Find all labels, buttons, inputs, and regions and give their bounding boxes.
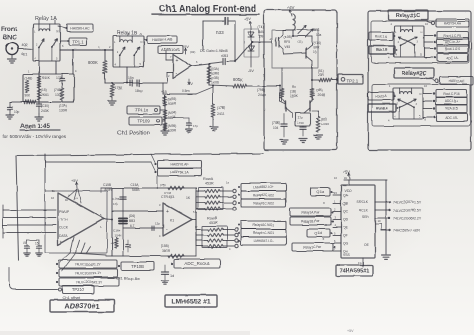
svg-text:74HA595#1: 74HA595#1: [340, 269, 370, 275]
svg-text:10a: 10a: [316, 33, 322, 37]
svg-text:for 500mV/div - 10V/div ranges: for 500mV/div - 10V/div ranges: [3, 134, 67, 139]
svg-text:N: N: [141, 40, 143, 44]
svg-text:243K: 243K: [41, 109, 50, 113]
svg-text:Rout.1.B.S: Rout.1.B.S: [445, 47, 461, 51]
svg-text:QF: QF: [343, 234, 348, 238]
svg-text:RowA: RowA: [203, 177, 214, 181]
svg-text:(79B): (79B): [257, 88, 265, 92]
svg-text:+1/5: +1/5: [110, 241, 116, 245]
svg-text:(14B): (14B): [25, 76, 33, 80]
svg-text:Relay 1A: Relay 1A: [35, 16, 57, 22]
svg-text:ADC.I.B-: ADC.I.B-: [445, 116, 457, 120]
svg-text:1K06: 1K06: [211, 81, 219, 85]
svg-text:RowB: RowB: [207, 216, 218, 220]
svg-text:C15B: C15B: [103, 183, 111, 187]
svg-text:74LVC1G04#1.2Y: 74LVC1G04#1.2Y: [75, 262, 102, 266]
svg-text:160K: 160K: [290, 94, 299, 98]
svg-text:QA: QA: [343, 194, 349, 198]
svg-text:QC: QC: [343, 210, 349, 214]
svg-text:Q1a: Q1a: [317, 190, 325, 194]
svg-text:(13A): (13A): [59, 104, 67, 108]
svg-text:QG: QG: [343, 242, 349, 246]
svg-text:(11): (11): [297, 40, 302, 44]
svg-text:74LVC2G06#2.2Y: 74LVC2G06#2.2Y: [393, 216, 422, 220]
svg-text:TP2.1: TP2.1: [347, 79, 359, 84]
svg-text:90K: 90K: [25, 94, 32, 98]
svg-text:Relay#1C.NO1: Relay#1C.NO1: [253, 223, 274, 227]
svg-text:Relay#2C: Relay#2C: [402, 71, 426, 77]
svg-text:244R: 244R: [258, 93, 267, 97]
svg-text:199: 199: [258, 35, 264, 39]
svg-text:HA5Y2.AH: HA5Y2.AH: [449, 79, 465, 83]
svg-text:545B: 545B: [132, 188, 139, 192]
svg-text:RCLK: RCLK: [359, 208, 369, 212]
svg-text:130R: 130R: [59, 109, 68, 113]
svg-text:SER: SER: [362, 215, 369, 219]
svg-text:C15A: C15A: [131, 183, 140, 187]
svg-text:+5V: +5V: [71, 179, 78, 183]
svg-text:n053: n053: [221, 54, 228, 58]
svg-text:16: 16: [51, 196, 55, 200]
svg-text:Ch1 Analog Front-end: Ch1 Analog Front-end: [159, 4, 256, 15]
svg-text:Run.1.B: Run.1.B: [376, 48, 388, 52]
svg-text:ADC_RxOut: ADC_RxOut: [185, 261, 210, 266]
svg-text:Rx: Rx: [292, 85, 296, 89]
svg-text:10: 10: [377, 219, 381, 223]
svg-text:180p: 180p: [135, 89, 143, 93]
svg-text:HA05KH.AC: HA05KH.AC: [70, 26, 90, 30]
svg-text:V45: V45: [284, 45, 290, 49]
svg-text:+5V: +5V: [287, 5, 295, 10]
svg-text:+: +: [166, 209, 169, 215]
svg-text:C164: C164: [113, 229, 121, 233]
svg-text:1/R20: 1/R20: [321, 122, 329, 126]
svg-text:+15: +15: [161, 90, 167, 94]
svg-text:LMH6547.I.O-: LMH6547.I.O-: [254, 239, 274, 243]
svg-text:QE: QE: [343, 226, 349, 230]
svg-text:QD: QD: [343, 218, 349, 222]
svg-text:(03B): (03B): [211, 76, 219, 80]
svg-text:74LVC2G07#1.5Y: 74LVC2G07#1.5Y: [393, 200, 422, 204]
svg-text:Rout3.A: Rout3.A: [375, 94, 387, 98]
svg-text:154N: 154N: [114, 234, 121, 238]
svg-text:R2A.B.5: R2A.B.5: [446, 107, 458, 111]
svg-text:DC Gain=1.98x/8: DC Gain=1.98x/8: [200, 49, 228, 53]
svg-text:74LVC2G06#2.3Y: 74LVC2G06#2.3Y: [76, 280, 103, 284]
svg-text:74LVC2G07#2.5Y: 74LVC2G07#2.5Y: [393, 208, 422, 212]
svg-text:15n: 15n: [128, 76, 134, 80]
svg-text:Relay1B.Pwr: Relay1B.Pwr: [301, 219, 320, 223]
svg-text:175K: 175K: [114, 86, 123, 90]
svg-text:+: +: [176, 58, 179, 64]
svg-text:+: +: [60, 240, 63, 245]
svg-text:74HC595#2.SER: 74HC595#2.SER: [393, 228, 420, 232]
svg-text:CTR 453: CTR 453: [161, 195, 175, 199]
svg-text:VSS: VSS: [343, 253, 351, 257]
svg-text:Ch1 offset: Ch1 offset: [62, 295, 81, 300]
svg-text:QB: QB: [343, 202, 349, 206]
svg-text:1234: 1234: [168, 116, 176, 120]
svg-text:HA05KH.AB: HA05KH.AB: [152, 38, 172, 42]
svg-text:CLCK: CLCK: [59, 226, 69, 230]
svg-text:BFR: BFR: [313, 46, 320, 50]
svg-text:12p: 12p: [155, 221, 160, 225]
svg-text:Ch1 Position: Ch1 Position: [117, 131, 150, 137]
svg-text:453R: 453R: [205, 182, 214, 186]
svg-text:204R: 204R: [317, 93, 326, 97]
svg-text:(15): (15): [41, 88, 47, 92]
svg-text:(M93): (M93): [168, 97, 176, 101]
svg-text:(15B): (15B): [161, 244, 169, 248]
svg-text:(71): (71): [258, 25, 264, 29]
svg-text:17p: 17p: [113, 202, 118, 206]
svg-text:DATA: DATA: [59, 234, 68, 238]
svg-text:Q1d: Q1d: [315, 231, 322, 235]
svg-text:Atten 1:45: Atten 1:45: [20, 123, 50, 130]
svg-text:(02): (02): [190, 50, 195, 54]
svg-text:K1: K1: [170, 219, 174, 223]
svg-text:915K: 915K: [42, 76, 51, 80]
svg-text:Front: Front: [1, 26, 18, 33]
svg-text:ADC.I.B+: ADC.I.B+: [445, 99, 458, 103]
svg-text:n33: n33: [216, 30, 224, 35]
svg-text:4E1: 4E1: [21, 52, 27, 56]
svg-text:15: 15: [35, 241, 39, 245]
svg-text:74LVC2G07#1.1Y: 74LVC2G07#1.1Y: [75, 271, 102, 275]
svg-text:(M95): (M95): [168, 124, 176, 128]
svg-text:2K61: 2K61: [41, 93, 49, 97]
svg-text:104: 104: [273, 126, 279, 130]
svg-text:Ch1 Brkup-Bw: Ch1 Brkup-Bw: [116, 276, 140, 280]
svg-text:Relay1C.Pwr: Relay1C.Pwr: [303, 245, 322, 249]
svg-text:2401: 2401: [217, 112, 225, 116]
svg-text:6.7: 6.7: [130, 224, 135, 228]
svg-text:(17B): (17B): [217, 106, 225, 110]
svg-text:40R: 40R: [21, 43, 28, 47]
svg-text:453R: 453R: [209, 221, 218, 225]
svg-text:(74B): (74B): [272, 121, 280, 125]
svg-text:+5V: +5V: [244, 17, 251, 21]
svg-text:N: N: [420, 92, 422, 96]
svg-text:HA5Y6K.1A: HA5Y6K.1A: [170, 170, 189, 174]
svg-text:PWUP: PWUP: [59, 210, 70, 214]
svg-text:RF5: RF5: [284, 40, 290, 44]
svg-text:Relay#1C: Relay#1C: [396, 13, 420, 19]
svg-text:TP210: TP210: [72, 287, 85, 292]
svg-text:(V14): (V14): [313, 41, 321, 45]
svg-text:Rout.1.C.P5: Rout.1.C.P5: [444, 34, 461, 38]
svg-text:RunB.4: RunB.4: [377, 106, 388, 110]
svg-text:VDD: VDD: [344, 189, 352, 193]
svg-text:Relay#1C.NO2: Relay#1C.NO2: [253, 201, 274, 205]
svg-text:1d: 1d: [170, 274, 174, 278]
svg-text:806K: 806K: [233, 77, 243, 82]
svg-text:HA05Y6.AF: HA05Y6.AF: [170, 162, 188, 166]
svg-text:N: N: [421, 30, 423, 34]
svg-text:ADC.In.A+: ADC.In.A+: [445, 40, 460, 44]
svg-text:(03A): (03A): [211, 67, 219, 71]
svg-text:OE: OE: [364, 243, 370, 247]
svg-text:SRCLK: SRCLK: [357, 200, 369, 204]
svg-text:93R6: 93R6: [211, 72, 219, 76]
svg-text:15: 15: [23, 241, 27, 245]
svg-text:x: x: [323, 237, 325, 241]
svg-text:10: 10: [313, 50, 317, 54]
svg-text:Relay#2C.NO2: Relay#2C.NO2: [253, 193, 274, 197]
svg-text:-5V: -5V: [248, 69, 254, 73]
svg-text:Relay1A.Pwr: Relay1A.Pwr: [301, 210, 320, 214]
svg-text:ADC.I.A-: ADC.I.A-: [446, 56, 458, 60]
svg-text:936R: 936R: [168, 102, 177, 106]
svg-text:Relay#2C.NO1: Relay#2C.NO1: [253, 231, 274, 235]
svg-text:360R: 360R: [162, 249, 170, 253]
svg-text:+5V: +5V: [347, 329, 354, 333]
svg-text:LMH6552 #1: LMH6552 #1: [171, 298, 211, 305]
svg-text:800R: 800R: [104, 188, 112, 192]
svg-text:RA5Y54.AH: RA5Y54.AH: [444, 21, 462, 25]
svg-text:C166: C166: [112, 197, 120, 201]
svg-text:(7B): (7B): [160, 183, 166, 187]
svg-text:TP4.1o: TP4.1o: [135, 108, 149, 113]
svg-text:TP10B: TP10B: [131, 264, 144, 269]
svg-text:(D6): (D6): [129, 214, 135, 218]
svg-text:N: N: [57, 30, 59, 34]
svg-text:LMH6552.I.O+: LMH6552.I.O+: [253, 185, 274, 189]
svg-text:10p: 10p: [14, 110, 20, 114]
svg-text:AD8510#1: AD8510#1: [161, 47, 181, 52]
svg-text:LT30: LT30: [297, 121, 304, 125]
svg-text:BAV: BAV: [258, 30, 265, 34]
svg-text:23R: 23R: [318, 73, 325, 77]
svg-text:(1B): (1B): [290, 90, 296, 94]
svg-text:1b: 1b: [65, 198, 69, 202]
svg-text:TP109: TP109: [137, 119, 150, 124]
svg-text:1K: 1K: [186, 196, 191, 200]
svg-text:800K: 800K: [88, 60, 98, 65]
svg-text:BB3: BB3: [129, 219, 135, 223]
svg-text:Rout.C.P16: Rout.C.P16: [443, 92, 459, 96]
svg-text:17p: 17p: [193, 124, 198, 128]
svg-text:(10B): (10B): [284, 35, 292, 39]
svg-text:N: N: [140, 32, 142, 36]
svg-text:16: 16: [344, 176, 348, 180]
svg-text:x: x: [323, 201, 325, 205]
svg-text:17u: 17u: [297, 116, 303, 120]
svg-text:BNC: BNC: [3, 34, 17, 41]
svg-text:(80): (80): [321, 117, 327, 121]
svg-text:TP1.1: TP1.1: [72, 39, 84, 44]
svg-text:(9B): (9B): [316, 88, 322, 92]
svg-text:(M94): (M94): [168, 111, 176, 115]
svg-text:AD8370#1: AD8370#1: [64, 302, 99, 311]
svg-text:LTCH: LTCH: [59, 218, 68, 222]
svg-text:Rout.1.A: Rout.1.A: [375, 34, 388, 38]
svg-text:(C30): (C30): [41, 104, 49, 108]
svg-text:0.5m: 0.5m: [182, 89, 189, 93]
